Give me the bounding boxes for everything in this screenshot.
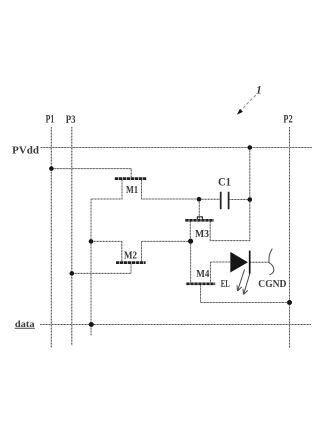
wire M4 drain leg to EL anode bbox=[211, 262, 231, 283]
transistor M4 gate bar bbox=[186, 282, 215, 285]
svg-text:M1: M1 bbox=[126, 185, 138, 196]
net PVdd rail bbox=[41, 147, 313, 149]
svg-text:CGND: CGND bbox=[258, 279, 286, 290]
light emission arrow 2 bbox=[243, 273, 250, 295]
svg-text:PVdd: PVdd bbox=[12, 145, 39, 157]
svg-text:M3: M3 bbox=[195, 229, 209, 240]
wire M2 drain to node C bbox=[142, 241, 191, 261]
node data-column junction bbox=[89, 322, 94, 327]
wire M1 source leg to data column bbox=[91, 180, 122, 199]
transistor M1 gate bar bbox=[115, 177, 147, 180]
wire scan line P2 bbox=[289, 127, 291, 348]
reference 1 leader arrow bbox=[242, 95, 256, 110]
node data column / M2 source junction bbox=[89, 239, 94, 244]
wire M3 drain leg bbox=[209, 221, 211, 240]
diode EL triangle bbox=[230, 252, 248, 273]
wire node C down to M4 bbox=[190, 241, 192, 282]
wire EL cathode to CGND break bbox=[250, 261, 269, 263]
svg-text:M2: M2 bbox=[124, 251, 137, 262]
wire node B to C1 left plate bbox=[199, 198, 220, 200]
net data rail bbox=[40, 324, 311, 326]
svg-text:1: 1 bbox=[256, 85, 262, 97]
node C1 right junction bbox=[248, 197, 253, 202]
node P2-M4 gate junction bbox=[287, 300, 292, 305]
wire M3 gate stub bbox=[198, 199, 200, 219]
wire PVdd column down to M3 drain bbox=[210, 148, 250, 241]
transistor M3 gate bar bbox=[185, 219, 214, 222]
svg-text:C1: C1 bbox=[218, 177, 231, 189]
svg-text:M4: M4 bbox=[196, 269, 210, 280]
node P3-M2 gate junction bbox=[70, 271, 75, 276]
wire M2 source leg bbox=[121, 241, 123, 261]
wire C1 right plate to PVdd column bbox=[229, 199, 250, 201]
wire M4 gate to P2 bbox=[201, 285, 290, 302]
transistor M2 gate bar bbox=[116, 261, 146, 264]
wire scan line P3 bbox=[71, 127, 73, 346]
node C junction (M3 source / M2 drain / M4) bbox=[188, 239, 193, 244]
wire P1 to M1 gate bbox=[51, 169, 131, 178]
svg-text:EL: EL bbox=[221, 278, 230, 290]
svg-text:P1: P1 bbox=[46, 114, 55, 126]
light emission arrow 1 bbox=[237, 270, 245, 292]
wire M2 gate to P3 bbox=[72, 264, 131, 274]
label data underline bbox=[15, 327, 35, 329]
wire M3 source leg bbox=[189, 221, 191, 240]
svg-text:P3: P3 bbox=[66, 114, 76, 126]
wire M1 drain to node B bbox=[142, 180, 200, 199]
wire scan line P1 bbox=[50, 127, 52, 348]
wire data column vertical bbox=[90, 199, 92, 336]
wire data column to M2 source bbox=[91, 240, 122, 242]
node P1-M1 junction bbox=[49, 166, 54, 171]
node B junction (M1 drain / C1 / M3 gate) bbox=[197, 197, 202, 202]
diode EL cathode bar bbox=[249, 251, 251, 274]
transistor M3 gate bump bbox=[197, 217, 202, 219]
node PVdd-C1 column junction bbox=[248, 145, 253, 150]
CGND break squiggle bbox=[269, 249, 274, 275]
svg-text:P2: P2 bbox=[283, 113, 292, 125]
capacitor C1 plates bbox=[221, 192, 229, 209]
